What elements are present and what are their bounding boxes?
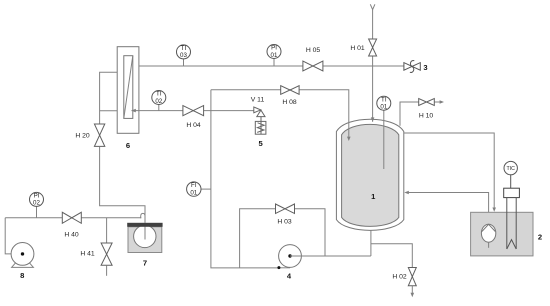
svg-text:V 11: V 11 [251, 97, 265, 104]
wire hook into tank 7 [141, 213, 145, 218]
valve H01 [369, 39, 377, 56]
wire H41 branch [106, 218, 108, 243]
bath circulation pump [481, 224, 495, 248]
pump 8 [5, 218, 34, 268]
arrow H02 drain [411, 293, 415, 297]
svg-text:H 41: H 41 [80, 251, 95, 258]
wire pump4 discharge [290, 255, 371, 257]
wire FI01 stem [201, 188, 211, 190]
wire PI01 stem [273, 59, 275, 66]
arrow into vessel jacket [404, 191, 409, 195]
wire HX left bottom connection [100, 110, 118, 112]
instrument PI01 [267, 45, 281, 59]
wire TI03 stem [183, 59, 185, 66]
vessel 1 inner jacket (gray) [342, 124, 399, 226]
svg-text:H 08: H 08 [282, 99, 297, 106]
svg-text:TIC: TIC [507, 166, 516, 172]
svg-text:H 05: H 05 [306, 47, 321, 54]
svg-text:H 40: H 40 [64, 232, 79, 239]
instrument TI02 [152, 91, 166, 105]
svg-text:PI01: PI01 [271, 45, 278, 59]
vessel 1 outer shell [336, 119, 403, 230]
wire riser x=210.9 [211, 90, 279, 268]
wire HX left top connection [100, 72, 118, 124]
TIC actuator box [504, 188, 520, 197]
svg-text:H 20: H 20 [75, 133, 90, 140]
valve H04 [183, 106, 204, 116]
wire drain branch to H02 [371, 244, 412, 268]
svg-text:3: 3 [423, 63, 427, 72]
wire bath return line B (bath to vessel) [409, 193, 489, 225]
svg-text:8: 8 [20, 271, 24, 280]
tank 7 body [128, 227, 162, 253]
instrument FI01 [187, 182, 201, 196]
tank 7 sight glass [134, 225, 156, 247]
wire H03 bypass [240, 209, 325, 268]
arrow into bath [492, 208, 496, 212]
valve H05 [303, 61, 323, 71]
arrow dip tube into vessel [347, 137, 351, 141]
valve H40 [62, 212, 81, 223]
vent arrow (open V) [370, 4, 375, 9]
wire main feed line y=217.8 [5, 217, 141, 219]
svg-text:7: 7 [143, 259, 147, 268]
wire H41 drain stub [106, 265, 108, 276]
valve H10 [419, 99, 435, 106]
valve H02 [408, 268, 416, 286]
valve 3 (sampling) [404, 61, 420, 73]
wire bath supply line A (vessel to bath) [404, 133, 494, 208]
heater probe [507, 198, 516, 249]
wire dip tube inside tank 7 [144, 223, 146, 240]
wire TI02 stem [158, 105, 160, 111]
instrument TIC [504, 161, 517, 174]
valve H41 [101, 243, 112, 265]
arrow into vessel top [371, 117, 375, 121]
svg-text:2: 2 [538, 233, 542, 242]
wire H04 / V11 line y=110.6 [132, 110, 254, 112]
valve H03 [276, 204, 295, 214]
wire vessel bottom outlet [370, 230, 372, 256]
svg-text:H 03: H 03 [277, 219, 292, 226]
instrument TI01 [377, 96, 391, 110]
wire TI01 thermowell [383, 110, 385, 169]
svg-text:H 10: H 10 [419, 113, 434, 120]
tank 7 lid [127, 223, 162, 227]
arrow H10 vent [440, 100, 444, 103]
svg-text:6: 6 [126, 141, 130, 150]
wire H20 down to tank 7 [100, 146, 145, 222]
valve H20 [94, 124, 104, 146]
thermostat bath 2 [471, 212, 533, 256]
TIC controller stem [510, 175, 512, 188]
valve H08 [281, 86, 299, 95]
svg-text:H 04: H 04 [186, 122, 201, 129]
heat exchanger 6 tube [124, 56, 133, 119]
heat exchanger 6 shell [117, 47, 139, 134]
wire vent line / H01 line [372, 10, 374, 122]
svg-text:H 02: H 02 [392, 274, 407, 281]
instrument TI03 [177, 45, 191, 59]
svg-text:H 01: H 01 [350, 45, 365, 52]
instrument PI02 [30, 192, 44, 206]
wire H10 line [400, 102, 440, 126]
wire H02 outlet [411, 286, 413, 294]
svg-text:PI02: PI02 [33, 193, 40, 207]
pump 4 [277, 245, 301, 270]
relief valve V11 (5) [254, 107, 266, 134]
arrow into exchanger tube [131, 109, 136, 113]
wire PI02 stem [36, 206, 38, 217]
heat exchanger 6 tube diagonal [124, 56, 133, 119]
wire top process line y=66 [139, 65, 404, 67]
wire H08 line y=89.8 [211, 90, 349, 137]
